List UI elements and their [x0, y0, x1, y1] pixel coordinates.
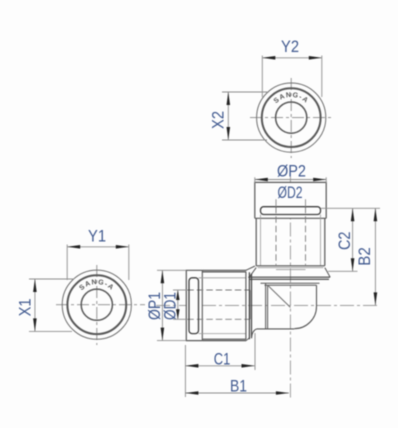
vertical leg sleeve outline — [255, 182, 326, 218]
horizontal leg inner collet lines — [199, 277, 247, 279]
dimension Y2 extension lines — [261, 56, 263, 98]
svg-text:B2: B2 — [355, 247, 374, 266]
horizontal leg body end double line — [245, 272, 247, 339]
svg-text:X2: X2 — [209, 111, 228, 129]
elbow block left double line — [265, 283, 267, 329]
dimension X2 extension lines — [222, 91, 269, 93]
horizontal leg flare top — [246, 266, 255, 270]
horizontal leg bore dashed lines — [187, 289, 250, 291]
dimension P2 extension ticks — [254, 177, 256, 183]
left-view bore circle — [81, 289, 112, 320]
dimension Y1 line — [67, 246, 129, 248]
svg-text:C2: C2 — [335, 232, 354, 251]
dimension D1 line — [177, 290, 179, 319]
dimension C1 left extension line — [184, 345, 186, 397]
dimension D1 extension lines — [173, 289, 187, 291]
dimension P2 line — [255, 179, 326, 181]
dimension D2 extension ticks — [275, 199, 277, 206]
dimension X1 line — [34, 279, 36, 331]
horizontal leg top edge — [202, 269, 246, 271]
elbow block top double line — [261, 282, 320, 284]
vertical leg sleeve/body divider — [255, 217, 326, 219]
dimension P1 line — [161, 270, 163, 340]
vertical leg body bottom double line — [256, 265, 325, 267]
node top-view centerline horizontal — [250, 117, 332, 119]
dimension P1 extension lines — [157, 269, 186, 271]
elbow block bottom-left blend — [252, 329, 258, 338]
vertical leg release collar flange — [261, 207, 321, 215]
dimension C2 bottom extension line — [328, 270, 358, 272]
left-view SANG-A brand text — [78, 279, 115, 293]
horizontal leg bottom edge — [202, 340, 246, 342]
elbow block corner arc — [294, 307, 316, 329]
horizontal leg release collar flange — [189, 278, 199, 334]
horizontal leg bore end line — [249, 290, 251, 319]
vertical leg bore end line — [276, 269, 306, 271]
node left-view centerline horizontal — [56, 304, 145, 306]
svg-text:Y1: Y1 — [88, 226, 106, 245]
svg-text:C1: C1 — [214, 349, 231, 368]
dimension Y2 line — [262, 57, 322, 59]
svg-text:B1: B1 — [230, 376, 247, 395]
dimension X2 line — [227, 92, 229, 140]
horizontal leg body outline — [202, 272, 246, 339]
dimension X1 extension lines — [29, 278, 74, 280]
vertical leg skirt flare left — [249, 268, 256, 278]
vertical leg centerline — [289, 177, 291, 398]
left-view collar circle — [67, 275, 126, 334]
dimension B1 line — [185, 392, 289, 394]
vertical leg bore dashed lines — [275, 207, 277, 265]
horizontal leg centerline — [156, 304, 380, 306]
node left-view centerline vertical — [96, 265, 98, 345]
elbow block bottom edge — [257, 328, 294, 330]
vertical leg inner collet lines — [260, 215, 262, 266]
vertical leg skirt rim — [248, 277, 330, 279]
vertical leg body outline — [256, 218, 325, 265]
vertical leg skirt flare right — [325, 268, 330, 278]
dimension C2 top extension line — [321, 207, 381, 209]
horizontal leg skirt rim — [249, 272, 251, 339]
svg-text:ØD1: ØD1 — [160, 292, 179, 320]
dimension C1 line — [185, 365, 254, 367]
horizontal leg sleeve outline — [186, 270, 202, 340]
dimension C1 right extension line — [254, 333, 256, 370]
dimension C2 line — [352, 208, 354, 271]
svg-text:ØD2: ØD2 — [278, 183, 303, 202]
top-view outer circle — [257, 83, 326, 152]
svg-text:Y2: Y2 — [281, 37, 299, 56]
elbow block diagonal — [268, 285, 291, 307]
top-view SANG-A brand text — [273, 92, 310, 106]
top-view bore circle — [276, 102, 307, 133]
elbow block right edge — [316, 285, 318, 306]
horizontal leg sleeve/body divider — [201, 270, 203, 340]
horizontal leg flare bottom — [246, 338, 250, 341]
svg-text:ØP2: ØP2 — [277, 161, 306, 180]
dimension Y1 extension lines — [66, 245, 68, 281]
svg-text:X1: X1 — [16, 298, 35, 316]
top-view collar circle — [262, 88, 321, 147]
dimension B2 line — [374, 208, 376, 305]
left-view outer circle — [62, 270, 131, 339]
node top-view centerline vertical — [290, 78, 292, 158]
